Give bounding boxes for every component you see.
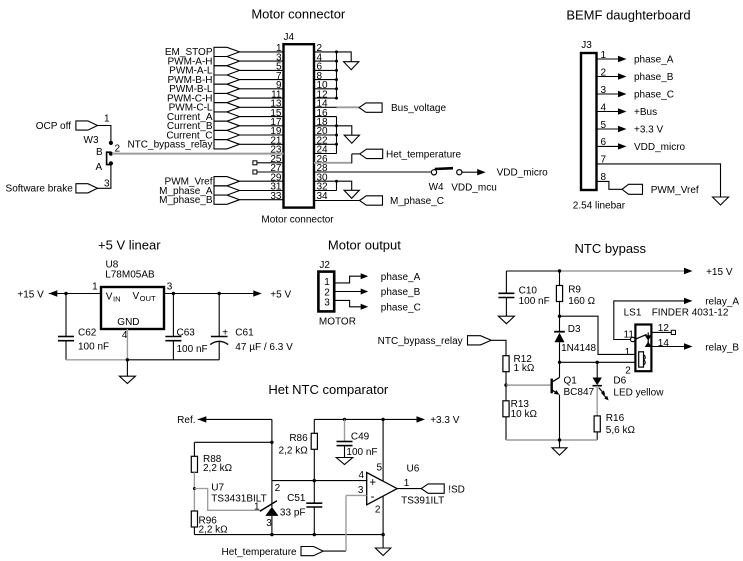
wire J2 pin 1 to phase_A — [334, 273, 368, 283]
relay LS1 coil — [639, 352, 646, 367]
svg-text:M_phase_B: M_phase_B — [159, 195, 213, 206]
resistor R86 — [279, 419, 318, 456]
wire opamp pin 2 — [382, 496, 384, 534]
pin number 1 (U8) — [92, 281, 98, 292]
wire emitter ground rail — [506, 439, 597, 441]
switch W3 shunt bracket — [107, 152, 111, 164]
net label NTC_bypass_relay (J4 pin 21) — [127, 140, 283, 151]
svg-text:VDD_micro: VDD_micro — [497, 168, 549, 179]
net label phase_A (J2) — [381, 272, 421, 283]
net label NTC_bypass_relay (input) — [378, 336, 492, 347]
ground — [375, 548, 391, 556]
svg-text:BEMF daughterboard: BEMF daughterboard — [566, 8, 690, 23]
svg-text:D6: D6 — [613, 376, 626, 387]
label U6 — [407, 464, 420, 475]
net label PWM-A-H (J4 pin 3) — [168, 56, 284, 67]
svg-text:2,2 kΩ: 2,2 kΩ — [203, 463, 233, 474]
wire +3.3V rail — [314, 416, 425, 422]
ground — [498, 316, 514, 324]
svg-text:C63: C63 — [177, 328, 196, 339]
svg-text:C61: C61 — [235, 328, 254, 339]
wire U8 pin 4 to ground rail — [126, 329, 128, 360]
svg-text:C49: C49 — [351, 432, 370, 443]
svg-text:R9: R9 — [568, 285, 581, 296]
wire ground branch bottom — [337, 181, 352, 190]
svg-text:A: A — [96, 162, 103, 173]
label VDD_mcu — [451, 183, 497, 194]
pin numbers J4 odd (left) — [270, 43, 282, 202]
pin number 1 (LS1) — [625, 347, 631, 358]
svg-text:2,2 kΩ: 2,2 kΩ — [199, 524, 229, 535]
regulator U8 reference label — [106, 260, 119, 271]
svg-text:Q1: Q1 — [564, 376, 578, 387]
svg-text:D3: D3 — [568, 324, 581, 335]
svg-text:W4: W4 — [429, 182, 444, 193]
svg-text:+: + — [369, 477, 376, 489]
net label +3.3 V — [430, 415, 460, 426]
svg-text:2.54 linebar: 2.54 linebar — [573, 201, 626, 212]
svg-text:1: 1 — [92, 281, 98, 292]
svg-text:47 µF / 6.3 V: 47 µF / 6.3 V — [235, 342, 293, 353]
connector J4 reference label — [284, 32, 295, 43]
svg-text:+5 V: +5 V — [270, 289, 291, 300]
net label Ref. — [177, 415, 195, 426]
wire R12 to base node — [505, 372, 507, 385]
svg-text:J4: J4 — [284, 32, 295, 43]
connector J2 reference label — [319, 260, 330, 271]
node LED junction — [596, 361, 599, 364]
connector J2 body — [318, 272, 334, 312]
ground — [552, 448, 567, 455]
net label phase_A (J3 pin 1) — [597, 55, 674, 66]
relay pin 11 circle — [631, 337, 635, 341]
wire J3 pin 8 — [597, 181, 623, 189]
ground — [344, 62, 359, 70]
svg-text:5,6 kΩ: 5,6 kΩ — [606, 425, 636, 436]
label 1N4148 — [561, 343, 596, 354]
transistor Q1 (BC847) — [552, 362, 560, 440]
pin number 12 (LS1) — [658, 323, 670, 334]
wire opamp pin 5 — [382, 419, 384, 481]
svg-text:1 kΩ: 1 kΩ — [514, 363, 535, 374]
svg-text:10 kΩ: 10 kΩ — [511, 409, 538, 420]
svg-text:!SD: !SD — [448, 484, 465, 495]
net label OCP off — [36, 121, 98, 132]
svg-text:Bus_voltage: Bus_voltage — [391, 103, 446, 114]
switch W4 — [431, 168, 462, 175]
net label relay_A — [705, 297, 739, 308]
svg-text:1N4148: 1N4148 — [561, 343, 596, 354]
capacitor C62 — [58, 294, 109, 360]
capacitor C51 — [280, 493, 322, 535]
svg-text:J3: J3 — [581, 40, 592, 51]
capacitor C61 (polarized) — [210, 294, 293, 360]
op-amp U6 (TS391ILT) — [367, 473, 397, 505]
wire J2 pin 3 to phase_C — [334, 300, 368, 309]
capacitor C63 — [165, 294, 207, 360]
node C62 junction — [64, 292, 67, 295]
label D3 — [568, 324, 581, 335]
net label PWM-C-L (J4 pin 13) — [169, 103, 284, 114]
relay LS1 body — [635, 325, 651, 372]
net label +Bus (J3 pin 4) — [597, 107, 658, 118]
svg-text:+5 V linear: +5 V linear — [98, 238, 161, 253]
net label relay_B — [705, 342, 739, 353]
net label Bus_voltage — [359, 103, 446, 114]
wire J4 pins 16-24 ground bus — [314, 117, 338, 154]
pin number 1 (W3) — [104, 114, 110, 125]
svg-text:Het_temperature: Het_temperature — [386, 149, 461, 160]
label VOUT (U8) — [133, 291, 156, 303]
wire R86 to C51 — [313, 449, 315, 503]
label BC847 — [564, 387, 595, 398]
connector J3 reference label — [581, 40, 592, 51]
wire R88 top — [194, 442, 272, 456]
node collector junction — [558, 361, 561, 364]
net label phase_B (J2) — [381, 287, 421, 298]
title Motor output — [328, 237, 401, 252]
svg-text:C62: C62 — [78, 328, 97, 339]
svg-text:M_phase_C: M_phase_C — [390, 196, 444, 207]
svg-text:NTC_bypass_relay: NTC_bypass_relay — [378, 336, 463, 347]
wire U7 ref jog — [194, 489, 261, 511]
node base junction — [504, 383, 507, 386]
label 2.54 linebar — [573, 201, 626, 212]
svg-text:VDD_mcu: VDD_mcu — [451, 183, 497, 194]
svg-text:+: + — [222, 327, 228, 338]
wire W4 to VDD_micro arrow — [462, 169, 486, 175]
wire comparator ground rail — [194, 534, 383, 536]
net label phase_C (J3 pin 3) — [597, 90, 675, 101]
connector J3 body — [581, 53, 597, 190]
net label M_phase_A (J4 pin 31) — [159, 186, 283, 197]
pin number 3 (U6) — [358, 485, 364, 496]
svg-text:phase_B: phase_B — [381, 287, 421, 298]
wire ground stub U8 — [126, 360, 128, 376]
svg-text:C10: C10 — [519, 285, 538, 296]
svg-text:R86: R86 — [289, 433, 308, 444]
regulator U7 value label — [211, 494, 266, 505]
svg-text:2,2 kΩ: 2,2 kΩ — [279, 445, 309, 456]
node U7 rail junction — [270, 533, 273, 536]
svg-text:phase_C: phase_C — [381, 302, 421, 313]
pin number 3 (U7) — [266, 518, 272, 529]
node R9 top junction — [558, 269, 561, 272]
ground — [344, 190, 359, 198]
wire relay pin 12 — [651, 331, 671, 333]
svg-text:+3.3 V: +3.3 V — [430, 415, 460, 426]
svg-text:VDD_micro: VDD_micro — [634, 142, 686, 153]
shunt reference U7 (TS3431) — [260, 501, 279, 535]
net label !SD — [421, 484, 465, 495]
wire LED to R16 — [596, 386, 598, 416]
wire J4 pin 34 — [314, 200, 360, 202]
net label VDD_micro (J3 pin 6) — [597, 142, 686, 153]
wire J4 pins 30-32 ground bus — [314, 180, 338, 191]
net label M_phase_B (J4 pin 33) — [159, 195, 283, 206]
net label PWM-B-H (J4 pin 7) — [168, 75, 284, 86]
title NTC bypass — [575, 241, 647, 256]
label A (W3) — [96, 162, 103, 173]
capacitor C10 — [498, 271, 549, 316]
unconnected pin 27 marker — [253, 170, 284, 174]
node emitter rail junction — [558, 438, 561, 441]
svg-text:FINDER 4031-12: FINDER 4031-12 — [652, 308, 729, 319]
title Motor connector — [251, 7, 346, 22]
wire J4 pin 28 to W4 — [314, 171, 431, 173]
svg-text:-: - — [371, 491, 375, 503]
svg-text:Motor connector: Motor connector — [261, 214, 334, 225]
resistor R88 — [191, 454, 232, 474]
pin number 5 (U6) — [376, 463, 382, 474]
wire NTC tag to R12 — [491, 340, 506, 355]
ground — [119, 376, 135, 383]
net label phase_B (J3 pin 2) — [597, 72, 674, 83]
connector J4 body — [284, 44, 315, 207]
node ground rail junction — [126, 358, 129, 361]
net label +15 V — [17, 289, 44, 300]
svg-text:4: 4 — [358, 470, 364, 481]
svg-text:V: V — [133, 291, 140, 302]
pin number 2 (W3) — [115, 143, 121, 154]
pin number 1 (U7) — [254, 501, 260, 512]
label GND (U8) — [117, 317, 139, 328]
regulator U8 value label — [105, 269, 155, 280]
relay LS1 contact — [635, 332, 652, 347]
relay LS1 reference label — [624, 308, 642, 319]
svg-text:phase_A: phase_A — [381, 272, 421, 283]
svg-text:Ref.: Ref. — [177, 415, 195, 426]
svg-text:NTC_bypass_relay: NTC_bypass_relay — [127, 140, 212, 151]
label MOTOR (J2 value) — [319, 317, 356, 328]
svg-text:OUT: OUT — [140, 294, 156, 303]
svg-text:GND: GND — [117, 317, 139, 328]
svg-text:2: 2 — [625, 365, 631, 376]
pin number 3 (W3) — [104, 178, 110, 189]
svg-text:Motor output: Motor output — [328, 237, 401, 252]
wire Ref — [198, 416, 272, 422]
net label Het_temperature (J4) — [360, 149, 462, 160]
svg-text:3: 3 — [324, 297, 330, 308]
svg-text:LED yellow: LED yellow — [613, 387, 664, 398]
ground — [713, 197, 729, 205]
label VIN (U8) — [106, 292, 121, 304]
wire relay pin 14 relay_B — [651, 343, 692, 349]
svg-text:Het_temperature: Het_temperature — [222, 547, 297, 558]
svg-text:phase_B: phase_B — [634, 72, 674, 83]
switch W3 contacts — [109, 141, 113, 166]
svg-text:Motor connector: Motor connector — [251, 7, 346, 22]
svg-text:+15 V: +15 V — [706, 267, 733, 278]
wire J4 pin 26 — [314, 154, 360, 163]
wire W3 pin 3 — [98, 166, 111, 189]
svg-text:W3: W3 — [84, 135, 99, 146]
net label Het_temperature (input) — [222, 547, 324, 559]
relay LS1 value label — [652, 308, 729, 319]
svg-text:U6: U6 — [407, 464, 420, 475]
wire Het_temperature to opamp pin 3 — [323, 495, 367, 551]
svg-text:100 nF: 100 nF — [177, 344, 208, 355]
svg-text:V: V — [106, 292, 113, 303]
pin number 14 (LS1) — [658, 338, 670, 349]
pin numbers J2 — [324, 277, 330, 308]
resistor R9 — [556, 271, 595, 316]
wire R88-R96 column — [193, 472, 195, 511]
unconnected pin 12 marker — [671, 330, 675, 334]
svg-text:IN: IN — [113, 295, 121, 304]
svg-text:L78M05AB: L78M05AB — [105, 269, 155, 280]
title BEMF daughterboard — [566, 8, 690, 23]
wire J3 pin 7 — [597, 164, 721, 197]
svg-text:U7: U7 — [211, 482, 224, 493]
wire J4 pin 14 — [314, 106, 359, 108]
title Het NTC comparator — [268, 382, 389, 397]
pin number 4 (U6) — [358, 470, 364, 481]
pin number 11 (LS1) — [624, 329, 635, 340]
label W4 — [429, 182, 444, 193]
pin number 3 (U8) — [167, 281, 173, 292]
svg-text:3: 3 — [167, 281, 173, 292]
svg-text:3: 3 — [104, 178, 110, 189]
resistor R16 — [594, 413, 635, 440]
node C63 junction — [172, 292, 175, 295]
svg-text:NTC bypass: NTC bypass — [575, 241, 647, 256]
net label VDD_micro — [497, 168, 549, 179]
svg-text:1: 1 — [404, 478, 410, 489]
svg-text:100 nF: 100 nF — [346, 447, 377, 458]
label D6 — [613, 376, 626, 387]
pin number 1 (U6) — [404, 478, 410, 489]
net label EM_STOP (J4 pin 1) — [165, 47, 284, 58]
svg-text:BC847: BC847 — [564, 387, 595, 398]
ground — [344, 135, 359, 143]
pin number 2 (U6) — [375, 505, 381, 516]
wire relay_A — [614, 298, 693, 340]
svg-text:3: 3 — [266, 518, 272, 529]
net label PWM-A-L (J4 pin 5) — [169, 66, 283, 77]
title +5 V linear — [98, 238, 161, 253]
wire W3 pin 1 — [98, 126, 111, 142]
wire ground branch top — [337, 52, 352, 62]
svg-text:R16: R16 — [606, 413, 625, 424]
node C51 rail junction — [313, 533, 316, 536]
svg-text:phase_A: phase_A — [634, 55, 674, 66]
svg-text:LS1: LS1 — [624, 308, 642, 319]
wire collector to relay coil pin 2 — [560, 361, 636, 363]
wire J4 pins 2-12 ground bus — [314, 50, 338, 99]
svg-text:+15 V: +15 V — [17, 289, 44, 300]
pin number 2 (U7) — [275, 483, 281, 494]
net label +5 V — [270, 289, 291, 300]
pin number 4 (U8) — [122, 330, 128, 341]
wire U7 cathode column — [271, 419, 273, 507]
svg-text:1: 1 — [254, 501, 260, 512]
regulator U7 reference label — [211, 482, 224, 493]
regulator U8 body — [101, 287, 164, 329]
svg-text:1: 1 — [625, 347, 631, 358]
capacitor C49 — [337, 419, 378, 458]
LED D6 (yellow) — [593, 362, 609, 400]
net label M_phase_C — [360, 196, 444, 207]
net label +3.3 V (J3 pin 5) — [597, 125, 664, 136]
svg-text:relay_B: relay_B — [705, 342, 739, 353]
svg-text:33: 33 — [270, 191, 282, 202]
svg-text:160 Ω: 160 Ω — [568, 296, 595, 307]
node C61 junction — [218, 292, 221, 295]
net label PWM_Vref (J4 pin 29) — [165, 177, 284, 188]
wire ground stub opamp — [382, 535, 384, 548]
wire +5V ground rail — [66, 359, 219, 361]
net label PWM_Vref (J3) — [622, 184, 699, 196]
net label phase_C (J2) — [381, 302, 421, 313]
node pin4 wire junction — [313, 479, 316, 482]
diode D3 (1N4148) — [554, 316, 565, 362]
net label PWM-B-L (J4 pin 9) — [169, 84, 283, 95]
wire J2 pin 2 to phase_B — [334, 289, 368, 295]
svg-text:14: 14 — [658, 338, 670, 349]
node ref junction — [193, 487, 196, 490]
label Q1 — [564, 376, 578, 387]
net label Current_A (J4 pin 15) — [167, 112, 284, 123]
svg-text:Software brake: Software brake — [6, 184, 74, 195]
pin numbers J3 — [601, 50, 607, 183]
svg-text:2: 2 — [375, 505, 381, 516]
net label Current_B (J4 pin 17) — [167, 121, 284, 132]
label TS391ILT — [401, 495, 444, 506]
svg-text:+3.3 V: +3.3 V — [634, 125, 664, 136]
wire opamp output — [397, 488, 421, 490]
svg-text:Het NTC comparator: Het NTC comparator — [268, 382, 389, 397]
label B (W3) — [96, 147, 103, 158]
svg-text:C51: C51 — [287, 493, 306, 504]
net label Software brake — [6, 184, 98, 195]
label W3 — [84, 135, 99, 146]
pin numbers J4 even (right) — [317, 43, 329, 202]
svg-text:OCP off: OCP off — [36, 121, 71, 132]
node R88 top junction — [270, 441, 273, 444]
svg-text:relay_A: relay_A — [705, 297, 739, 308]
svg-text:B: B — [96, 147, 103, 158]
node C49 junction — [343, 418, 346, 421]
wire opamp pin 4 — [272, 480, 367, 482]
svg-text:TS391ILT: TS391ILT — [401, 495, 444, 506]
svg-text:PWM_Vref: PWM_Vref — [651, 185, 699, 196]
svg-text:phase_C: phase_C — [634, 90, 674, 101]
svg-text:J2: J2 — [319, 260, 330, 271]
svg-text:33 pF: 33 pF — [280, 508, 306, 519]
resistor R12 — [503, 354, 535, 374]
wire +15V input — [49, 290, 101, 296]
svg-text:+Bus: +Bus — [634, 107, 657, 118]
wire +5V output — [164, 290, 262, 296]
svg-text:2: 2 — [275, 483, 281, 494]
net label Current_C (J4 pin 19) — [166, 130, 283, 141]
wire to relay coil pin 1 — [560, 316, 636, 354]
pin number 2 (LS1) — [625, 365, 631, 376]
net label +15 V (NTC) — [706, 267, 733, 278]
svg-text:5: 5 — [376, 463, 382, 474]
resistor R13 — [503, 385, 538, 440]
net label PWM-C-H (J4 pin 11) — [167, 93, 284, 104]
resistor R96 — [191, 511, 228, 535]
svg-text:100 nF: 100 nF — [78, 342, 109, 353]
wire ground stub Q1 — [559, 440, 561, 448]
unconnected pin 25 marker — [253, 161, 284, 165]
svg-text:MOTOR: MOTOR — [319, 317, 356, 328]
label Motor connector (J4 value) — [261, 214, 334, 225]
svg-text:100 nF: 100 nF — [519, 296, 550, 307]
wire base — [506, 384, 551, 386]
